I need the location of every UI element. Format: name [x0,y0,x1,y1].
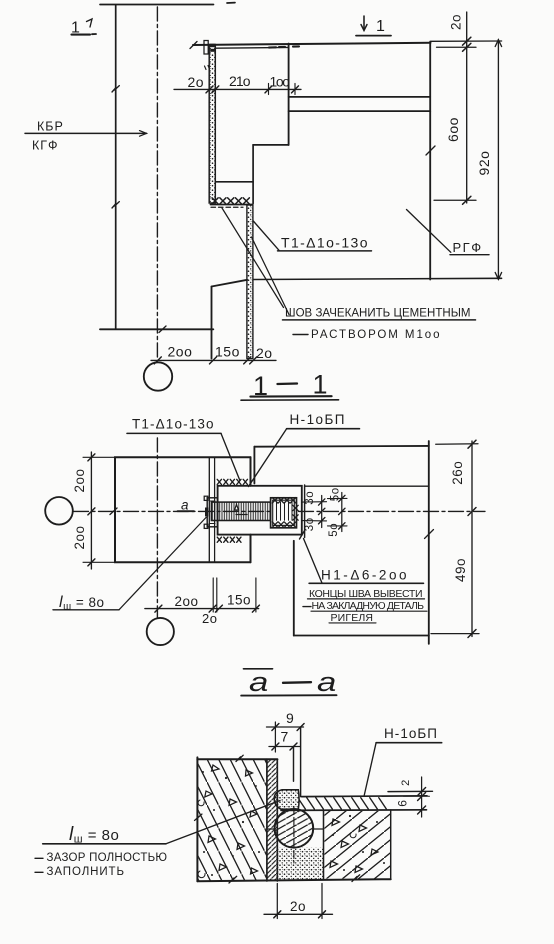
svg-text:2оо: 2оо [72,525,87,549]
svg-text:1оо: 1оо [270,74,291,90]
svg-text:7: 7 [281,729,289,745]
svg-text:Т1-Δ1о-13о: Т1-Δ1о-13о [132,417,214,432]
svg-text:92о: 92о [476,151,492,176]
svg-text:2о: 2о [256,345,273,361]
svg-text:3о: 3о [304,517,316,531]
svg-text:2оо: 2оо [72,468,87,492]
svg-text:Н-1оБП: Н-1оБП [384,726,438,741]
svg-text:1: 1 [253,371,269,401]
svg-text:5о: 5о [330,487,342,501]
svg-text:КГФ: КГФ [32,139,59,153]
svg-text:2о: 2о [202,611,217,626]
svg-text:ЗАЗОР ПОЛНОСТЬЮ: ЗАЗОР ПОЛНОСТЬЮ [47,852,168,864]
svg-text:2оо: 2оо [168,344,193,360]
svg-text:ЗАПОЛНИТЬ: ЗАПОЛНИТЬ [47,866,125,878]
svg-text:3о: 3о [304,491,316,505]
svg-text:15о: 15о [215,344,240,360]
svg-text:Н1-Δ6-2оо: Н1-Δ6-2оо [321,568,407,583]
svg-text:1: 1 [313,370,329,400]
svg-text:ШОВ ЗАЧЕКАНИТЬ ЦЕМЕНТНЫМ: ШОВ ЗАЧЕКАНИТЬ ЦЕМЕНТНЫМ [285,308,471,320]
svg-text:Н-1оБП: Н-1оБП [290,412,346,427]
svg-text:26о: 26о [450,461,465,485]
svg-text:КОНЦЫ ШВА ВЫВЕСТИ: КОНЦЫ ШВА ВЫВЕСТИ [309,588,423,600]
svg-text:1: 1 [71,20,80,37]
svg-text:9: 9 [286,710,294,726]
svg-text:2о: 2о [290,899,306,914]
svg-text:6оо: 6оо [445,117,461,142]
svg-text:НА ЗАКЛАДНУЮ ДЕТАЛЬ: НА ЗАКЛАДНУЮ ДЕТАЛЬ [312,600,425,612]
svg-text:РИГЕЛЯ: РИГЕЛЯ [331,612,374,624]
svg-text:15о: 15о [227,593,251,608]
svg-text:а: а [317,667,337,697]
svg-text:21о: 21о [229,73,251,89]
svg-text:РГФ: РГФ [453,240,483,255]
svg-text:а: а [181,497,189,512]
svg-text:РАСТВОРОМ М1оо: РАСТВОРОМ М1оо [311,329,440,341]
svg-text:2оо: 2оо [175,594,199,609]
svg-text:КБР: КБР [37,120,64,134]
svg-text:Т1-Δ1о-13о: Т1-Δ1о-13о [281,235,368,251]
svg-text:2о: 2о [449,14,464,30]
svg-text:5о: 5о [328,523,340,537]
svg-text:а: а [249,667,269,697]
svg-text:49о: 49о [453,558,468,582]
svg-text:2о: 2о [188,74,205,90]
svg-text:6: 6 [396,800,410,807]
svg-text:1: 1 [376,18,385,35]
svg-text:2: 2 [400,779,412,786]
